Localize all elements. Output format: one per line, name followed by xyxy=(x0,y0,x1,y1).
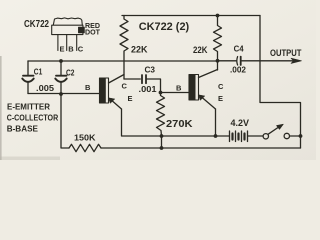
scan artifact left edge xyxy=(0,56,2,160)
wire right bus (top rail to switch and bottom) xyxy=(260,16,301,149)
svg-text:DOT: DOT xyxy=(85,28,100,37)
wire Q1 base line xyxy=(28,93,100,95)
transistor Q1 emitter arrowhead xyxy=(109,98,115,103)
svg-text:C3: C3 xyxy=(145,65,156,75)
resistor R3 270K xyxy=(157,93,165,137)
svg-text:B: B xyxy=(85,83,91,92)
svg-text:E: E xyxy=(60,45,65,54)
transistor Q1 base bar xyxy=(100,78,109,103)
wire Q2 emitter drop xyxy=(215,109,217,136)
node dot Q2 emitter at battery line xyxy=(214,134,218,138)
wire output line through C4 xyxy=(218,60,237,62)
svg-text:C: C xyxy=(78,45,84,54)
CK722 package lead E xyxy=(57,35,59,51)
svg-text:B: B xyxy=(176,84,182,93)
node dot Q2 collector / output tap xyxy=(216,59,220,63)
resistor 150K xyxy=(69,144,101,151)
CK722 package lead B xyxy=(66,35,68,51)
svg-text:E: E xyxy=(128,94,133,103)
svg-text:22K: 22K xyxy=(131,45,148,55)
paper background xyxy=(0,0,316,160)
CK722 package lead C xyxy=(76,35,78,51)
transistor Q1 collector lead xyxy=(109,75,125,84)
resistor R1 22K xyxy=(120,16,128,80)
node dot top rail at R2 xyxy=(216,14,220,18)
svg-text:C2: C2 xyxy=(66,69,75,78)
svg-text:.002: .002 xyxy=(230,64,246,74)
scan artifact bottom left xyxy=(0,157,60,161)
wire 270K bottom drop to bottom bus xyxy=(161,136,163,148)
transistor Q1 emitter lead xyxy=(112,100,122,109)
switch S1 arm xyxy=(268,127,280,135)
svg-text:OUTPUT: OUTPUT xyxy=(270,48,302,58)
wire top supply rail xyxy=(122,15,260,17)
svg-text:4.2V: 4.2V xyxy=(231,118,250,129)
svg-text:22K: 22K xyxy=(193,45,208,55)
transistor Q2 emitter arrowhead xyxy=(199,95,205,100)
switch S1 arm arrowhead xyxy=(277,124,284,129)
output arrowhead xyxy=(291,58,302,63)
capacitor C2 xyxy=(60,61,62,75)
wire Q2 base line xyxy=(161,92,190,94)
CK722 package flange xyxy=(52,25,83,34)
wire C3 coupling from Q1 collector xyxy=(124,78,140,80)
capacitor C1 xyxy=(27,61,29,75)
svg-text:E: E xyxy=(218,94,223,103)
resistor R2 22K xyxy=(214,16,222,71)
svg-text:B: B xyxy=(68,45,74,54)
svg-text:B-BASE: B-BASE xyxy=(7,123,39,133)
node dot C3 / 270K / Q2 base xyxy=(159,91,163,95)
node dot bottom bus at 270K drop xyxy=(160,146,164,150)
svg-text:.001: .001 xyxy=(139,84,157,94)
wire feedback line (C2/C1 tops to Q2 collector node) xyxy=(28,60,218,62)
capacitor C4 plates xyxy=(236,57,239,65)
switch S1 left contact xyxy=(263,134,268,139)
node dot switch to right bus xyxy=(299,134,303,138)
wire Q1 emitter to ground run xyxy=(122,109,217,136)
svg-text:C-COLLECTOR: C-COLLECTOR xyxy=(7,113,59,123)
node dot emitter line at 270K xyxy=(160,134,164,138)
wire bottom bus xyxy=(61,94,301,148)
svg-text:C: C xyxy=(122,82,128,91)
svg-text:CK722: CK722 xyxy=(24,18,49,30)
wire switch to right bus xyxy=(290,135,301,137)
transistor Q2 collector lead xyxy=(199,70,218,78)
svg-text:E-EMITTER: E-EMITTER xyxy=(7,101,50,111)
svg-text:CK722 (2): CK722 (2) xyxy=(139,21,190,33)
transistor Q2 base bar xyxy=(189,75,199,101)
switch S1 right contact xyxy=(284,133,289,138)
svg-text:C1: C1 xyxy=(34,67,43,76)
svg-text:C: C xyxy=(218,82,224,91)
svg-text:C4: C4 xyxy=(234,44,244,54)
node dot C2 bottom / base net xyxy=(59,92,63,96)
wire C3 to Q2 base node xyxy=(147,79,161,93)
node dot C2 top xyxy=(59,59,63,63)
svg-text:270K: 270K xyxy=(166,118,193,130)
svg-text:.005: .005 xyxy=(36,83,54,93)
CK722 package case outline xyxy=(53,18,82,25)
transistor Q2 emitter lead xyxy=(202,97,216,109)
svg-text:150K: 150K xyxy=(74,134,96,143)
capacitor C3 plates xyxy=(141,75,143,83)
CK722 package red dot marker xyxy=(79,27,85,33)
battery 4.2V cells xyxy=(216,135,263,137)
